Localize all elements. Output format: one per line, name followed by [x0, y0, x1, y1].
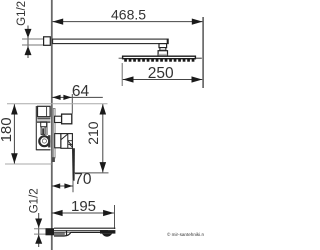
shower head left stub	[119, 57, 123, 59]
handle grip details	[68, 141, 73, 147]
handle lever bar	[72, 148, 75, 181]
dimension 250 arrows	[123, 76, 203, 82]
head connector neck	[160, 48, 166, 51]
spout inner lines	[54, 229, 108, 231]
trim plate	[53, 109, 55, 159]
shower head nozzles	[124, 59, 194, 62]
shower arm tube	[53, 39, 169, 44]
dimension 70 line	[52, 185, 73, 187]
head connector base	[158, 51, 167, 56]
dimension 210 bottom extension line	[74, 172, 109, 174]
dimension 210 line	[102, 104, 104, 172]
upper outlet tube	[55, 116, 62, 122]
valve small rect	[41, 122, 47, 127]
handle hub divider	[67, 134, 69, 149]
G1/2 bottom dimension line vertical	[38, 213, 40, 247]
dimension 180 line	[13, 104, 15, 163]
spout tip block	[100, 230, 115, 234]
svg-text:© mir-santehniki.ru: © mir-santehniki.ru	[167, 231, 204, 237]
head connector neck shade	[160, 49, 165, 50]
valve mid lines	[37, 120, 50, 122]
dimension 195 right extension line	[114, 205, 116, 229]
valve body left edge	[35, 106, 37, 150]
dimension 250 left extension line	[121, 63, 123, 86]
valve bottom line	[36, 149, 50, 151]
G1/2 bottom arrow down	[35, 219, 42, 228]
shower head right thin line	[195, 57, 201, 59]
wall outlet stub below plate	[52, 157, 55, 162]
handle base	[55, 134, 61, 148]
valve cartridge inner slot	[42, 128, 44, 134]
valve cartridge slot	[41, 127, 45, 135]
dimension 468.5 arrows	[52, 19, 202, 25]
dimension 180 arrows	[11, 104, 18, 163]
upper outlet cap	[62, 114, 72, 124]
dimension 195 arrows	[52, 210, 114, 216]
handle hub	[61, 134, 73, 149]
spout body lower	[54, 232, 100, 236]
spout aerator bump	[102, 234, 112, 237]
svg-text:250: 250	[148, 65, 174, 82]
dimension 70 arrows	[52, 183, 73, 188]
G1/2 bottom extension lines	[34, 229, 46, 234]
dimension 210 arrows	[100, 104, 107, 172]
datum extension line (valve top)	[7, 103, 108, 105]
dimension 64 arrows	[52, 95, 71, 100]
shower head plate	[123, 56, 196, 59]
valve dark patch right of circle	[48, 135, 50, 147]
svg-text:468.5: 468.5	[111, 6, 146, 22]
dimension 64 right extension line	[71, 94, 73, 114]
svg-text:70: 70	[74, 171, 92, 188]
G1/2 top extension lines	[22, 39, 43, 45]
svg-text:195: 195	[71, 198, 96, 215]
G1/2 bottom arrow up	[35, 235, 42, 244]
spout body	[54, 227, 115, 229]
dimension 70 extension line	[72, 181, 74, 192]
head connector block1	[159, 44, 167, 48]
G1/2 top arrow down	[25, 29, 32, 38]
valve circle	[39, 136, 49, 146]
svg-text:G1/2: G1/2	[28, 188, 40, 213]
spout wall block	[46, 228, 55, 235]
dimension 468.5 line	[52, 21, 202, 23]
right extension line	[202, 17, 204, 88]
valve inner column line	[46, 107, 48, 116]
handle hub diagonal	[61, 134, 68, 140]
dimension 195 line	[52, 212, 114, 214]
dimension 250 line	[123, 79, 203, 81]
dimension 180 bottom extension line	[5, 163, 52, 165]
head connector base shade	[158, 54, 167, 56]
svg-text:G1/2: G1/2	[16, 1, 28, 26]
dimension 64 line	[52, 96, 103, 98]
svg-text:64: 64	[72, 83, 90, 100]
spout shade	[54, 233, 65, 236]
G1/2 top dimension line vertical	[27, 26, 29, 59]
spout joint tick	[66, 231, 68, 236]
svg-text:210: 210	[85, 121, 101, 145]
shower arm wall elbow (behind wall)	[44, 37, 51, 46]
shower arm end cap	[167, 39, 169, 44]
wall line	[51, 0, 53, 250]
valve circle hub	[42, 139, 46, 143]
svg-text:180: 180	[0, 117, 15, 142]
valve top box	[38, 106, 51, 116]
valve dark band	[38, 117, 51, 119]
G1/2 top arrow up	[25, 46, 32, 55]
